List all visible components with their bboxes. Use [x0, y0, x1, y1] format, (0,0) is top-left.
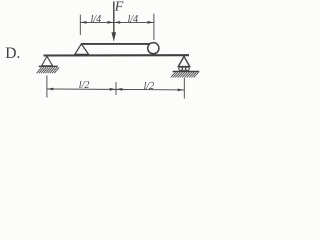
- svg-text:l/4: l/4: [91, 14, 102, 25]
- svg-text:D.: D.: [5, 45, 20, 62]
- svg-text:l/4: l/4: [128, 14, 139, 25]
- svg-text:l/2: l/2: [79, 80, 90, 91]
- svg-text:l/2: l/2: [144, 81, 155, 92]
- svg-text:F: F: [114, 0, 124, 15]
